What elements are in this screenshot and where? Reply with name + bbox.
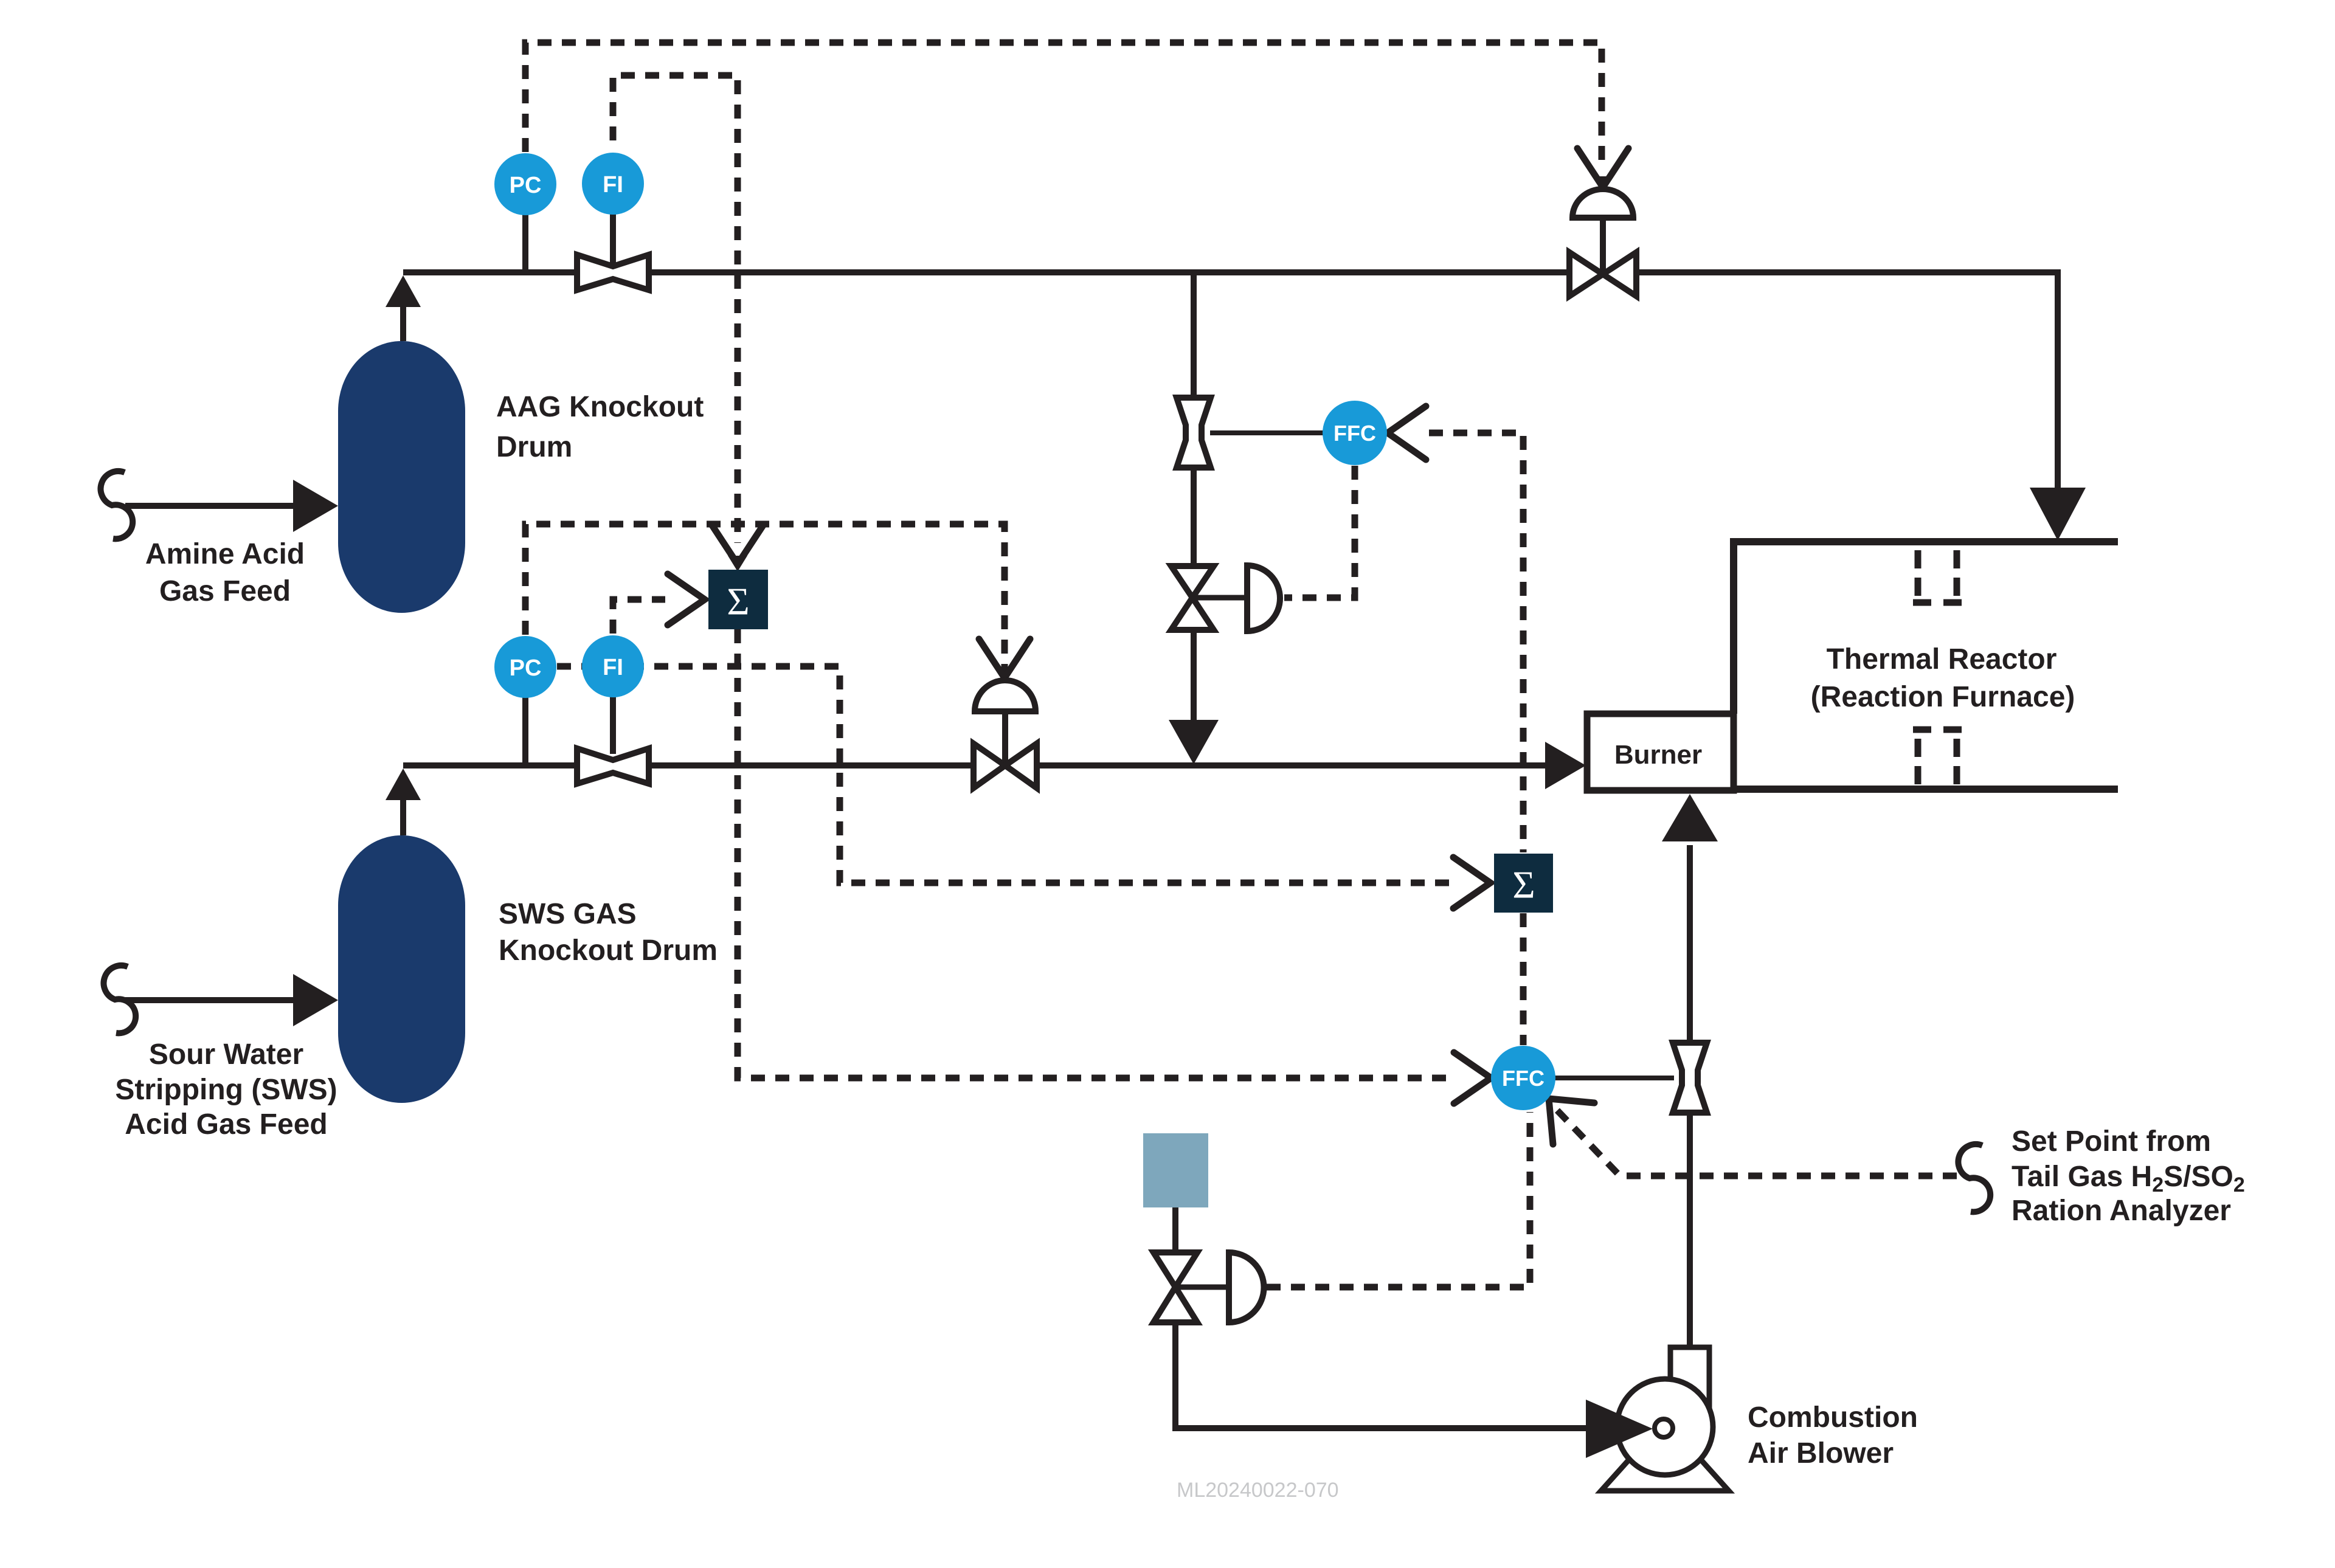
svg-text:Air Blower: Air Blower	[1748, 1437, 1894, 1470]
svg-text:ML20240022-070: ML20240022-070	[1177, 1479, 1339, 1502]
svg-text:Drum: Drum	[496, 431, 572, 463]
svg-text:Tail Gas H2S/SO2: Tail Gas H2S/SO2	[2012, 1161, 2245, 1197]
svg-text:Σ: Σ	[727, 580, 749, 623]
svg-text:AAG Knockout: AAG Knockout	[496, 391, 704, 423]
svg-text:Stripping (SWS): Stripping (SWS)	[115, 1074, 337, 1106]
svg-text:Burner: Burner	[1614, 740, 1702, 770]
svg-text:Amine Acid: Amine Acid	[145, 538, 305, 570]
svg-text:Σ: Σ	[1512, 863, 1535, 907]
svg-text:PC: PC	[510, 655, 542, 681]
svg-text:Gas Feed: Gas Feed	[159, 575, 291, 607]
svg-text:Combustion: Combustion	[1748, 1401, 1918, 1434]
svg-text:FFC: FFC	[1334, 421, 1376, 446]
svg-text:FFC: FFC	[1502, 1066, 1545, 1091]
svg-text:Ration Analyzer: Ration Analyzer	[2012, 1195, 2231, 1227]
svg-text:Sour Water: Sour Water	[149, 1038, 303, 1071]
svg-text:PC: PC	[510, 173, 542, 198]
svg-text:SWS GAS: SWS GAS	[499, 898, 637, 930]
svg-text:FI: FI	[603, 172, 623, 198]
svg-text:Knockout Drum: Knockout Drum	[499, 934, 718, 967]
svg-text:(Reaction Furnace): (Reaction Furnace)	[1811, 681, 2075, 713]
svg-text:FI: FI	[603, 655, 623, 680]
svg-text:Acid Gas Feed: Acid Gas Feed	[125, 1108, 327, 1141]
svg-text:Set Point from: Set Point from	[2012, 1125, 2211, 1158]
svg-text:Thermal Reactor: Thermal Reactor	[1827, 643, 2057, 675]
